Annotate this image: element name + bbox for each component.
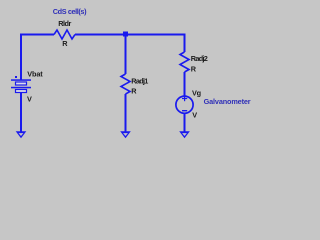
battery Vbat [11, 76, 31, 93]
wire: junction to Radj1 [125, 35, 127, 75]
svg-text:R: R [191, 65, 197, 74]
ground (middle) [120, 131, 131, 138]
svg-text:Vg: Vg [192, 88, 201, 97]
svg-text:Rldr: Rldr [58, 19, 71, 28]
wire: battery to ground [20, 93, 22, 134]
svg-text:R: R [62, 39, 68, 48]
svg-text:V: V [27, 95, 32, 104]
wire: galvanometer to ground [184, 113, 186, 133]
resistor Rldr zigzag [54, 30, 75, 39]
resistor Radj1 zigzag [121, 74, 130, 94]
svg-text:V: V [192, 111, 197, 120]
wire: top rail right segment [75, 35, 185, 53]
wire: Radj1 to ground [125, 94, 127, 133]
svg-text:R: R [131, 87, 137, 96]
svg-text:Galvanometer: Galvanometer [204, 97, 251, 106]
wire: top rail left segment [21, 35, 54, 81]
ground (right) [179, 131, 190, 138]
ground (left) [16, 131, 27, 138]
resistor Radj2 zigzag [180, 52, 189, 72]
galvanometer Vg (source symbol) [176, 96, 193, 113]
svg-text:Vbat: Vbat [27, 70, 43, 79]
svg-text:CdS cell(s): CdS cell(s) [53, 7, 87, 16]
svg-text:Radj2: Radj2 [191, 54, 208, 63]
node junction dot [123, 32, 128, 37]
wire: Radj2 to galvanometer [184, 72, 186, 97]
svg-text:Radj1: Radj1 [131, 76, 148, 85]
